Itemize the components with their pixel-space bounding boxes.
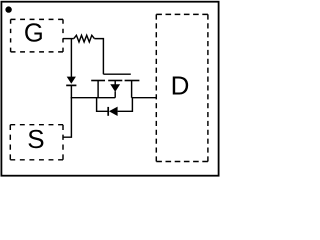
terminal box D: [156, 14, 208, 161]
MOSFET Q1 source stub: [97, 81, 99, 98]
terminal box S: [10, 125, 63, 160]
MOSFET Q1 gate plate: [103, 73, 130, 75]
body diode right leg: [118, 98, 133, 112]
wire source node: [71, 97, 116, 99]
terminal box G: [11, 19, 63, 52]
wire drain to D: [132, 97, 157, 99]
svg-text:D: D: [171, 70, 190, 100]
MOSFET Q1 channel segment (drain side): [125, 80, 140, 82]
svg-text:S: S: [27, 124, 44, 154]
wire resistor to gate corner: [94, 39, 103, 75]
MOSFET Q1 drain stub: [131, 81, 133, 98]
wire G to resistor: [63, 38, 74, 40]
wire gate junction down to ESD diode: [70, 39, 72, 77]
MOSFET Q1 body stub with arrow: [110, 81, 120, 98]
MOSFET Q1 channel segment (source side): [91, 80, 105, 82]
body diode left leg: [97, 98, 108, 112]
diode gate-source ESD: [66, 77, 76, 86]
wire ESD diode cathode down to S: [63, 85, 71, 137]
package outline: [1, 2, 218, 176]
pin-1 marker dot: [5, 6, 11, 12]
MOSFET Q1 channel segment (body): [108, 80, 122, 82]
body diode (drain-source): [108, 107, 117, 116]
resistor (gate series): [74, 35, 95, 42]
svg-text:G: G: [24, 20, 44, 48]
